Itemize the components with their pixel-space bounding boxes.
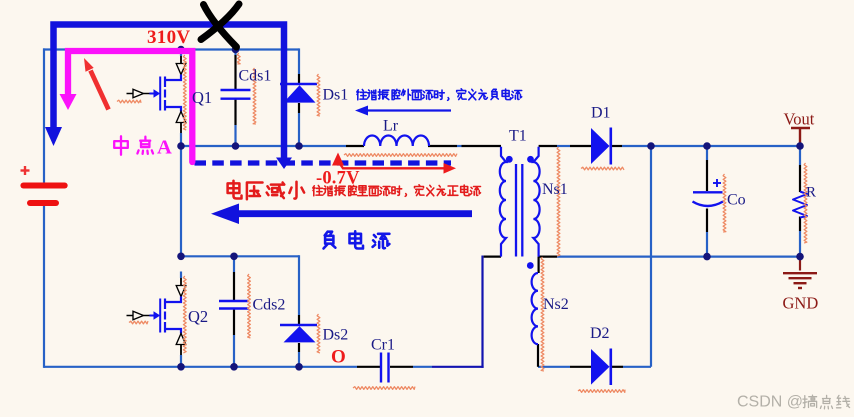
svg-text:Ds2: Ds2 <box>323 327 349 344</box>
svg-text:Ns1: Ns1 <box>542 181 568 198</box>
svg-text:Q1: Q1 <box>192 88 212 107</box>
svg-text:D2: D2 <box>590 325 610 342</box>
svg-text:Ds1: Ds1 <box>323 87 349 104</box>
svg-text:A: A <box>157 137 172 159</box>
svg-text:Ns2: Ns2 <box>543 296 569 313</box>
svg-text:O: O <box>331 347 346 368</box>
svg-text:310V: 310V <box>147 27 190 48</box>
svg-text:R: R <box>806 185 816 201</box>
svg-text:D1: D1 <box>591 105 611 122</box>
svg-text:Cr1: Cr1 <box>371 337 395 354</box>
svg-text:CSDN @: CSDN @ <box>737 394 803 411</box>
svg-text:Co: Co <box>727 192 746 209</box>
svg-text:GND: GND <box>783 294 819 313</box>
svg-text:T1: T1 <box>509 128 527 145</box>
svg-text:Cds2: Cds2 <box>253 297 286 314</box>
svg-text:Cds1: Cds1 <box>239 68 272 85</box>
svg-text:Vout: Vout <box>784 110 815 129</box>
svg-text:Lr: Lr <box>383 118 399 135</box>
svg-text:Q2: Q2 <box>188 307 208 326</box>
